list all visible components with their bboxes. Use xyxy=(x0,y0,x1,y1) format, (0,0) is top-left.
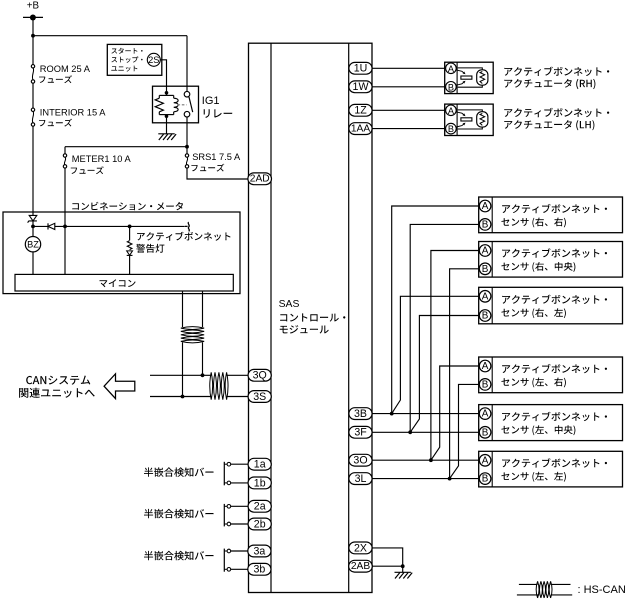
svg-text:B: B xyxy=(482,474,489,485)
svg-text:3S: 3S xyxy=(253,391,266,403)
sensor (左、中央) label xyxy=(502,412,607,421)
wire 1AA to actuator LH B xyxy=(372,128,445,130)
svg-text:B: B xyxy=(482,311,489,322)
svg-text:2AB: 2AB xyxy=(351,561,370,572)
svg-text:SAS: SAS xyxy=(279,299,300,310)
svg-text:SRS1 7.5 A: SRS1 7.5 A xyxy=(192,152,241,162)
svg-text:BZ: BZ xyxy=(27,240,39,250)
svg-text:2b: 2b xyxy=(254,518,266,530)
wire microcomputer to CAN-L xyxy=(182,291,184,327)
wire 1W to actuator RH B xyxy=(372,86,445,88)
pin 3O xyxy=(349,454,372,466)
sensor (左、右) pin B xyxy=(479,379,491,391)
twisted pair CAN-module xyxy=(210,372,228,399)
sensor box (右、中央) xyxy=(479,242,623,278)
sensor box (左、中央) xyxy=(479,405,623,441)
half-fit detection bar xyxy=(144,509,214,519)
svg-text:3O: 3O xyxy=(353,455,367,467)
wire relay contact to fuses xyxy=(186,117,188,147)
sensor box (左、右) xyxy=(479,357,623,393)
sensor (右、右) label xyxy=(502,204,607,213)
svg-text:1AA: 1AA xyxy=(351,124,370,135)
warning lamp wire xyxy=(129,226,131,240)
wire 3L to sensor B lines xyxy=(372,478,479,480)
svg-text:1b: 1b xyxy=(254,477,266,489)
sensor (右、右) pin A xyxy=(479,200,491,212)
svg-text:3B: 3B xyxy=(354,408,367,420)
sensor box (右、右) xyxy=(479,197,623,233)
wire microcomputer to CAN-H xyxy=(202,291,204,327)
svg-text:3F: 3F xyxy=(354,427,367,439)
sensor (右、左) label xyxy=(502,295,607,304)
ground IG1 relay xyxy=(166,118,168,134)
svg-text:IG1: IG1 xyxy=(202,95,220,107)
pin 1W xyxy=(349,81,372,93)
svg-text:1a: 1a xyxy=(254,459,266,471)
svg-text:A: A xyxy=(482,361,489,372)
pin 2a xyxy=(248,500,271,512)
fuse METER1 10 A xyxy=(63,154,66,157)
sensor (右、左) pin B xyxy=(479,310,491,322)
actuator LH box xyxy=(445,104,494,135)
svg-text:B: B xyxy=(482,219,489,230)
svg-text:3b: 3b xyxy=(254,564,266,576)
svg-text:2AD: 2AD xyxy=(250,174,270,185)
pin 3F xyxy=(349,426,372,438)
fuse SRS1 7.5 A xyxy=(186,147,188,154)
sensor (右、中央) pin B xyxy=(479,263,491,275)
half-fit detection bar xyxy=(144,551,214,561)
half-fit detection bar xyxy=(144,467,214,477)
wire 3O to sensor A lines xyxy=(372,459,479,461)
actuator RH pin A xyxy=(446,63,457,74)
microcomputer box xyxy=(15,274,233,291)
svg-text:1Z: 1Z xyxy=(354,105,367,117)
fuse ROOM 25 A xyxy=(31,65,34,68)
sensor (右、右) pin B xyxy=(479,219,491,231)
actuator LH pin B xyxy=(446,123,457,134)
relay IG1 contact xyxy=(178,104,187,106)
svg-text:2S: 2S xyxy=(148,55,159,65)
diode meter bus xyxy=(48,223,55,229)
legend twisted pair HS-CAN xyxy=(519,583,538,585)
start/stop unit box xyxy=(107,44,162,75)
svg-text:B: B xyxy=(482,427,489,438)
sensor (左、左) pin B xyxy=(479,473,491,485)
sensor (左、中央) pin B xyxy=(479,427,491,439)
pin 3a xyxy=(248,545,271,557)
fuse INTERIOR 15 A xyxy=(31,108,34,111)
node CAN H junction xyxy=(201,373,205,377)
svg-text:A: A xyxy=(448,106,455,116)
svg-text:A: A xyxy=(482,291,489,302)
wire INTERIOR fuse to combination meter xyxy=(32,126,34,215)
svg-text:+B: +B xyxy=(27,1,40,12)
wire +B to IG1 relay contact xyxy=(33,35,187,37)
wire METER1 fuse to meter microcomputer xyxy=(64,168,66,274)
node warning lamp branch xyxy=(128,225,132,229)
pin 2AD xyxy=(248,173,272,185)
pin 1a xyxy=(248,458,271,470)
CAN system arrow xyxy=(104,374,135,399)
sensor (左、左) pin A xyxy=(479,455,491,467)
svg-text:B: B xyxy=(448,82,454,92)
node meter bus centre xyxy=(63,225,67,229)
svg-text:A: A xyxy=(482,246,489,257)
svg-text:INTERIOR 15 A: INTERIOR 15 A xyxy=(40,107,106,117)
pin 2X xyxy=(349,542,372,554)
pin 1U xyxy=(349,62,372,74)
node meter bus left xyxy=(31,225,35,229)
wire to METER1 fuse xyxy=(65,146,187,148)
SAS control module box xyxy=(249,43,373,592)
connector 2S xyxy=(147,53,160,66)
svg-text:B: B xyxy=(482,379,489,390)
sensor (左、左) label xyxy=(502,458,607,467)
wire 1Z to actuator LH A xyxy=(372,109,445,111)
node +B branch xyxy=(31,34,35,38)
svg-text:1W: 1W xyxy=(353,81,369,93)
pin 2AB xyxy=(349,560,373,572)
pin 3b xyxy=(248,563,271,575)
svg-text:1U: 1U xyxy=(354,63,368,75)
ground module xyxy=(402,566,404,572)
node CAN L junction xyxy=(181,395,185,399)
relay IG1 coil xyxy=(165,91,169,95)
svg-text:A: A xyxy=(482,409,489,420)
sensor (右、中央) label xyxy=(502,248,607,257)
combination meter box xyxy=(72,202,183,211)
svg-text:A: A xyxy=(482,201,489,212)
svg-text:METER1 10 A: METER1 10 A xyxy=(72,154,132,164)
svg-text:3L: 3L xyxy=(355,473,367,485)
meter internal bus wire xyxy=(33,225,185,227)
pin 2b xyxy=(248,518,271,530)
wire ROOM fuse to INTERIOR fuse xyxy=(32,83,34,108)
sensor (左、中央) pin A xyxy=(479,408,491,420)
svg-text:3Q: 3Q xyxy=(253,370,267,382)
actuator LH pin A xyxy=(446,105,457,116)
wire 1U to actuator RH A xyxy=(372,67,445,69)
pin 1AA xyxy=(349,123,372,135)
pin 1Z xyxy=(349,104,372,116)
wire SRS1 fuse to pin 2AD xyxy=(187,168,248,179)
actuator RH squib xyxy=(456,70,464,73)
wire CAN L line xyxy=(150,396,211,398)
actuator RH box xyxy=(445,62,494,93)
pin 1b xyxy=(248,477,271,489)
wire +B down to ROOM fuse xyxy=(32,18,34,65)
svg-text:2a: 2a xyxy=(254,501,266,513)
relay IG1 box xyxy=(153,86,199,123)
svg-text:A: A xyxy=(448,64,455,74)
actuator LH squib xyxy=(456,112,464,115)
actuator RH label xyxy=(504,67,609,76)
svg-text:ROOM 25 A: ROOM 25 A xyxy=(40,64,91,74)
svg-text:B: B xyxy=(448,124,454,134)
wire 2S to IG1 relay coil xyxy=(160,60,166,93)
wire 3B to sensor A lines xyxy=(372,413,479,415)
wire CAN H line xyxy=(150,374,211,376)
svg-text:A: A xyxy=(482,455,489,466)
pin 3Q xyxy=(248,369,271,381)
node fuse feed xyxy=(185,145,189,149)
twisted pair meter-CAN xyxy=(181,327,204,343)
actuator RH pin B xyxy=(446,82,457,93)
diode meter supply xyxy=(32,216,34,227)
sensor box (右、左) xyxy=(479,287,623,324)
sensor box (左、左) xyxy=(479,451,623,487)
pin 3B xyxy=(349,408,372,420)
sensor (右、中央) pin A xyxy=(479,245,491,257)
pin 3L xyxy=(349,473,372,485)
warning lamp (zigzag + diode) xyxy=(127,241,132,250)
sensor (左、右) pin A xyxy=(479,360,491,372)
svg-text:B: B xyxy=(482,264,489,275)
sensor (左、右) label xyxy=(502,364,607,373)
wire 2AB to ground xyxy=(372,565,403,567)
svg-text:3a: 3a xyxy=(254,545,266,557)
actuator LH label xyxy=(504,108,609,117)
wire 3F to sensor B lines xyxy=(372,431,479,433)
pin 3S xyxy=(248,391,271,403)
buzzer BZ xyxy=(32,226,34,236)
svg-text:2X: 2X xyxy=(354,542,367,554)
wire 2X to ground xyxy=(372,548,403,566)
svg-text:: HS-CAN: : HS-CAN xyxy=(578,584,626,596)
sensor (右、左) pin A xyxy=(479,291,491,303)
